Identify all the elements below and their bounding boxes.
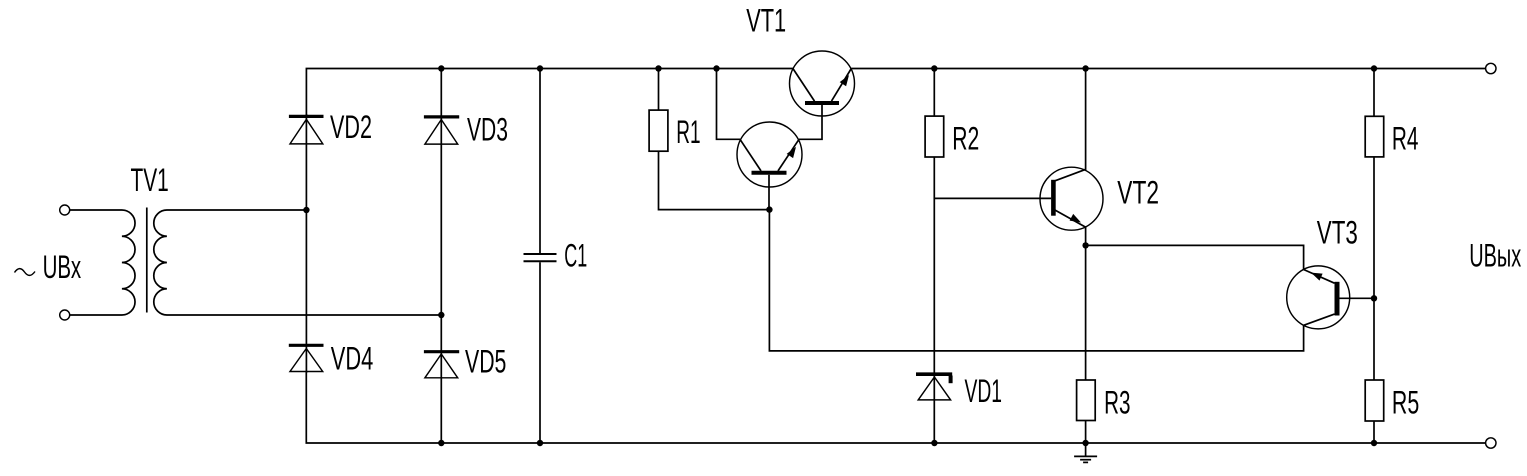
svg-text:UВых: UВых xyxy=(1469,237,1521,273)
wire R2 top lead xyxy=(933,69,935,117)
resistor R4 xyxy=(1365,116,1384,157)
wire R4-R5 column xyxy=(1373,157,1375,380)
svg-text:VT3: VT3 xyxy=(1317,214,1358,250)
resistor R3 xyxy=(1077,380,1096,421)
svg-text:TV1: TV1 xyxy=(131,162,169,198)
wire VD2-VD4 column xyxy=(305,114,307,373)
svg-text:VD1: VD1 xyxy=(965,373,1003,409)
AC tilde symbol xyxy=(15,269,36,276)
transistor VT1 first stage xyxy=(737,122,802,210)
svg-text:C1: C1 xyxy=(564,238,587,274)
resistor R1 xyxy=(649,110,668,151)
wire R2 bottom to node xyxy=(933,157,935,199)
wire VT2 base xyxy=(934,197,1051,199)
node C1 top xyxy=(537,65,543,71)
wire bottom rail with corner to VD4 xyxy=(306,372,1486,444)
svg-text:R4: R4 xyxy=(1392,120,1419,156)
capacitor C1 xyxy=(524,254,557,261)
svg-text:VT1: VT1 xyxy=(746,2,786,38)
diode VD3 xyxy=(424,117,459,144)
transformer TV1 primary winding xyxy=(70,210,135,315)
node R4 top xyxy=(1371,65,1377,71)
zener diode VD1 xyxy=(916,374,952,400)
input terminal top xyxy=(60,205,70,215)
transistor VT2 xyxy=(1040,167,1103,230)
node VT2 emitter xyxy=(1082,242,1088,248)
wire top rail output side xyxy=(851,68,1486,70)
node VT2 collector top xyxy=(1082,65,1088,71)
node ground xyxy=(1082,440,1088,446)
wire VD1 top lead xyxy=(933,198,935,443)
svg-text:VD5: VD5 xyxy=(465,343,506,379)
wire VT2 collector xyxy=(1085,69,1087,171)
transistor VT1 second stage xyxy=(790,51,855,116)
wire VT3 base xyxy=(1340,297,1375,299)
svg-text:UВх: UВх xyxy=(43,249,82,285)
node VT3 base xyxy=(1371,295,1377,301)
transformer TV1 secondary winding xyxy=(154,210,442,315)
node VD5 bottom xyxy=(438,440,444,446)
node R2 top xyxy=(931,65,937,71)
svg-text:VD3: VD3 xyxy=(467,112,508,148)
wire C1 bottom lead xyxy=(539,262,541,443)
wire R1 top lead xyxy=(658,69,660,111)
output terminal top xyxy=(1486,63,1496,73)
node VT1 base xyxy=(766,206,772,212)
output terminal bottom xyxy=(1486,438,1496,448)
node secondary bottom xyxy=(438,312,444,318)
svg-text:R3: R3 xyxy=(1104,385,1130,421)
wire VT1 first collector drop xyxy=(717,69,741,140)
ground xyxy=(1074,443,1097,462)
input terminal bottom xyxy=(60,310,70,320)
transformer TV1 core xyxy=(146,208,148,313)
wire VT2 emitter to R3 xyxy=(1085,245,1087,380)
wire VT1 interstage xyxy=(799,105,822,139)
diode VD2 xyxy=(289,116,324,143)
wire C1 top lead xyxy=(539,69,541,254)
svg-text:VD4: VD4 xyxy=(331,341,374,377)
wire R4 top lead xyxy=(1373,69,1375,117)
node R5 bottom xyxy=(1371,440,1377,446)
svg-text:R1: R1 xyxy=(676,114,700,150)
wire VT2 emitter xyxy=(1085,227,1087,245)
svg-text:VD2: VD2 xyxy=(330,109,372,145)
node VT1 collector xyxy=(713,65,719,71)
wire VT2 emitter to VT3 emitter xyxy=(1086,245,1304,269)
node VD1 bottom xyxy=(931,440,937,446)
svg-text:VT2: VT2 xyxy=(1117,174,1159,210)
node C1 bottom xyxy=(537,440,543,446)
node secondary top xyxy=(303,207,309,213)
transistor VT3 xyxy=(1287,266,1350,329)
resistor R2 xyxy=(925,116,944,157)
diode VD5 xyxy=(424,352,459,378)
wire top rail input side with corner to VD2 xyxy=(306,69,793,117)
node VD3 top xyxy=(438,65,444,71)
svg-text:R5: R5 xyxy=(1392,385,1419,421)
wire VD3 top lead xyxy=(440,69,442,444)
wire R5 bottom lead xyxy=(1373,421,1375,443)
node R1 top xyxy=(655,65,661,71)
diode VD4 xyxy=(289,345,324,371)
wire R1 bottom to VT1 base node xyxy=(659,151,770,209)
wire R3 bottom lead xyxy=(1085,421,1087,444)
resistor R5 xyxy=(1365,380,1384,421)
svg-text:R2: R2 xyxy=(952,120,979,156)
wire VT1 base long run to VT3 collector xyxy=(769,210,1303,351)
